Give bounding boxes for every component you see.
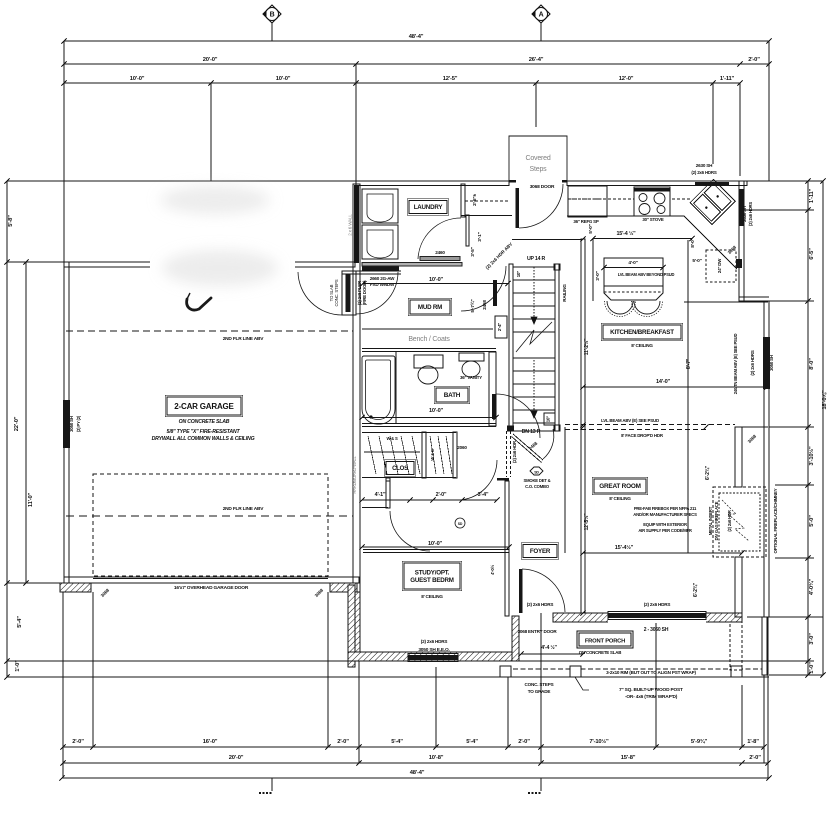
svg-text:3050 SH E.E.O.: 3050 SH E.E.O. <box>418 647 449 653</box>
svg-text:2ND FLR LINE ABV: 2ND FLR LINE ABV <box>223 336 265 342</box>
svg-text:2'-0": 2'-0" <box>72 739 84 745</box>
svg-text:2ND FLR LINE ABV: 2ND FLR LINE ABV <box>223 506 265 512</box>
svg-text:3068 DOOR: 3068 DOOR <box>530 184 555 190</box>
svg-text:(2) 2x6 HDRS: (2) 2x6 HDRS <box>750 350 755 375</box>
svg-text:2'-0": 2'-0" <box>748 57 760 63</box>
svg-text:(2) PY (2): (2) PY (2) <box>76 415 81 432</box>
svg-text:(2) 2x6 HDRS: (2) 2x6 HDRS <box>644 602 671 607</box>
svg-text:5'-7¾": 5'-7¾" <box>469 299 476 312</box>
svg-text:2660 2G-AW: 2660 2G-AW <box>370 276 395 281</box>
svg-text:48'-4": 48'-4" <box>410 770 425 776</box>
svg-text:1'-0": 1'-0" <box>15 660 21 672</box>
svg-text:LVL BEAM ABV BEYOND PSUD: LVL BEAM ABV BEYOND PSUD <box>618 272 675 277</box>
svg-text:15'-4½": 15'-4½" <box>615 544 634 551</box>
svg-text:-OR- 4x6 (TRIM WRAP'D): -OR- 4x6 (TRIM WRAP'D) <box>625 694 678 700</box>
svg-text:4'-0¾": 4'-0¾" <box>808 578 815 595</box>
svg-text:(2) 2x6 HDRS: (2) 2x6 HDRS <box>691 170 716 175</box>
svg-text:FOYER: FOYER <box>530 548 551 555</box>
svg-text:2468: 2468 <box>482 300 487 310</box>
svg-text:OPTIONAL FIREPLACE/CHIMNEY: OPTIONAL FIREPLACE/CHIMNEY <box>773 488 778 553</box>
svg-text:ON CONCRETE SLAB: ON CONCRETE SLAB <box>579 650 621 655</box>
svg-text:5'-4": 5'-4" <box>391 739 403 745</box>
svg-text:14'-0": 14'-0" <box>656 379 671 385</box>
svg-text:5'-0": 5'-0" <box>809 515 815 527</box>
svg-text:4'-1": 4'-1" <box>375 492 386 498</box>
svg-text:2'-0": 2'-0" <box>337 739 349 745</box>
svg-text:METAL INSERT: METAL INSERT <box>708 506 713 535</box>
svg-text:3050 SH: 3050 SH <box>69 416 74 432</box>
svg-text:Steps: Steps <box>530 166 548 173</box>
svg-text:48'-4": 48'-4" <box>409 34 424 40</box>
svg-text:20'-0": 20'-0" <box>229 755 244 761</box>
svg-text:FRONT PORCH: FRONT PORCH <box>585 639 625 645</box>
svg-text:8' FACE DROP'D HDR: 8' FACE DROP'D HDR <box>621 433 664 438</box>
svg-text:A: A <box>539 12 544 19</box>
svg-text:DN 13 R: DN 13 R <box>522 429 541 435</box>
svg-text:UP 14 R: UP 14 R <box>527 256 546 262</box>
svg-text:3'-0": 3'-0" <box>595 271 601 280</box>
svg-text:(2) 2x6 HDRS: (2) 2x6 HDRS <box>748 202 753 226</box>
svg-text:DRYWALL ALL COMMON WALLS & CEI: DRYWALL ALL COMMON WALLS & CEILING <box>152 436 255 442</box>
svg-text:6'-2¾": 6'-2¾" <box>704 465 711 480</box>
svg-text:10'-0": 10'-0" <box>130 76 145 82</box>
svg-text:36" REFG SP: 36" REFG SP <box>573 219 599 224</box>
svg-text:W & S: W & S <box>430 449 435 461</box>
svg-text:3-2x10 RIM (BUT OUT TO ALIGN P: 3-2x10 RIM (BUT OUT TO ALIGN PST WRAP) <box>606 670 696 675</box>
svg-text:TO SLAB: TO SLAB <box>329 284 334 301</box>
svg-text:5'-4": 5'-4" <box>17 616 23 628</box>
svg-text:PRE-FAB FIREBOX PER NFPA 211: PRE-FAB FIREBOX PER NFPA 211 <box>634 506 697 511</box>
svg-text:B: B <box>270 12 275 19</box>
svg-text:Bench / Coats: Bench / Coats <box>408 336 450 343</box>
svg-text:EQUIP WITH EXTERIOR: EQUIP WITH EXTERIOR <box>643 522 687 527</box>
svg-text:2060: 2060 <box>457 445 467 450</box>
svg-text:AIR SUPPLY PER CODE/MFR: AIR SUPPLY PER CODE/MFR <box>638 528 692 533</box>
svg-text:2'-0": 2'-0" <box>749 755 761 761</box>
svg-text:2'-0": 2'-0" <box>436 492 447 498</box>
svg-text:8' CEILING: 8' CEILING <box>609 496 631 501</box>
svg-text:GUEST BEDRM: GUEST BEDRM <box>410 577 454 584</box>
svg-text:2 x 6 WALL: 2 x 6 WALL <box>348 214 353 236</box>
svg-text:16'x7' OVERHEAD GARAGE DOOR: 16'x7' OVERHEAD GARAGE DOOR <box>174 585 249 591</box>
svg-text:22'-0": 22'-0" <box>14 416 20 431</box>
svg-text:1'-0": 1'-0" <box>809 662 815 674</box>
svg-text:5'-8": 5'-8" <box>8 215 14 227</box>
svg-text:BATH: BATH <box>444 392 461 399</box>
svg-text:8' CEILING: 8' CEILING <box>421 594 443 599</box>
svg-text:8' CEILING: 8' CEILING <box>631 343 653 348</box>
svg-text:SMOKE DET &: SMOKE DET & <box>524 478 551 483</box>
svg-text:TO GRADE: TO GRADE <box>528 689 551 694</box>
svg-text:10": 10" <box>546 416 551 422</box>
svg-text:12'-5": 12'-5" <box>443 76 458 82</box>
svg-text:3'-1": 3'-1" <box>477 232 483 241</box>
svg-text:C.O. COMBO: C.O. COMBO <box>525 484 550 489</box>
svg-text:12'-0": 12'-0" <box>619 76 634 82</box>
svg-text:4'-0½: 4'-0½ <box>490 564 495 575</box>
svg-text:3'-10½": 3'-10½" <box>808 446 815 466</box>
svg-text:6'-2¾": 6'-2¾" <box>692 582 699 597</box>
svg-text:DIV GAS FIREPLACE: DIV GAS FIREPLACE <box>714 501 719 540</box>
svg-text:240/TN BEAM ABV (E) SEE PSUD: 240/TN BEAM ABV (E) SEE PSUD <box>733 334 738 395</box>
svg-text:3'-0": 3'-0" <box>809 633 815 645</box>
svg-text:36" VANITY: 36" VANITY <box>460 375 482 380</box>
svg-text:(2) 2x6 HDR: (2) 2x6 HDR <box>512 440 517 463</box>
svg-text:2630 SH: 2630 SH <box>742 206 747 222</box>
svg-text:5/8" TYPE "X" FIRE-RESISTANT: 5/8" TYPE "X" FIRE-RESISTANT <box>167 429 241 435</box>
svg-text:LVL BEAM ABV (E) SEE PSUD: LVL BEAM ABV (E) SEE PSUD <box>601 418 659 423</box>
svg-text:8'-0": 8'-0" <box>690 238 696 247</box>
svg-text:30" STOVE: 30" STOVE <box>642 217 663 222</box>
svg-text:5'-0": 5'-0" <box>692 258 701 264</box>
svg-text:2-CAR GARAGE: 2-CAR GARAGE <box>174 402 234 411</box>
svg-text:(2) 2x6 HDRS: (2) 2x6 HDRS <box>527 602 554 607</box>
svg-text:2630 SH: 2630 SH <box>696 163 713 168</box>
svg-text:10'-0": 10'-0" <box>429 277 444 283</box>
svg-text:5'-0": 5'-0" <box>588 224 594 233</box>
svg-text:(2) 2x6 HDR: (2) 2x6 HDR <box>727 510 732 531</box>
svg-text:24" DW: 24" DW <box>717 258 722 273</box>
svg-text:10'-0": 10'-0" <box>428 541 443 547</box>
svg-text:10'-8": 10'-8" <box>429 755 444 761</box>
svg-text:8'-7": 8'-7" <box>686 358 692 369</box>
svg-text:3068 ENTRY DOOR: 3068 ENTRY DOOR <box>518 629 558 634</box>
svg-text:HARDIBOARD WALL: HARDIBOARD WALL <box>352 455 357 493</box>
svg-text:26'-4": 26'-4" <box>529 57 544 63</box>
svg-text:SD: SD <box>534 471 539 475</box>
svg-text:CLOS: CLOS <box>392 466 408 472</box>
svg-text:CONC. STEPS: CONC. STEPS <box>525 682 554 687</box>
svg-text:10'-0": 10'-0" <box>429 408 444 414</box>
svg-text:8'-0": 8'-0" <box>809 358 815 370</box>
svg-text:3'-5": 3'-5" <box>470 247 476 256</box>
svg-text:(FIRE DOOR): (FIRE DOOR) <box>362 280 367 305</box>
svg-text:AND/OR MANUFACTURER SPECS: AND/OR MANUFACTURER SPECS <box>633 512 697 517</box>
svg-text:Covered: Covered <box>525 155 550 162</box>
svg-text:15'-4 ½": 15'-4 ½" <box>616 230 636 237</box>
svg-text:STUDY/OPT.: STUDY/OPT. <box>415 569 450 576</box>
svg-text:W & S: W & S <box>386 436 398 441</box>
svg-text:3050 SH: 3050 SH <box>769 355 774 371</box>
svg-text:2460: 2460 <box>435 250 445 255</box>
svg-text:11'-2½": 11'-2½" <box>583 338 590 355</box>
svg-text:5'-9¾": 5'-9¾" <box>691 738 708 745</box>
svg-text:7'-10½": 7'-10½" <box>589 738 609 745</box>
svg-text:1'-11": 1'-11" <box>809 188 815 203</box>
svg-text:2'-6"±: 2'-6"± <box>472 194 478 206</box>
svg-text:4'-4 ½": 4'-4 ½" <box>541 644 557 651</box>
svg-text:5'-4": 5'-4" <box>466 739 478 745</box>
svg-text:11'-0": 11'-0" <box>28 492 34 507</box>
svg-text:10'-0": 10'-0" <box>276 76 291 82</box>
svg-text:2 - 3050 SH: 2 - 3050 SH <box>644 627 669 633</box>
svg-text:KITCHEN/BREAKFAST: KITCHEN/BREAKFAST <box>610 329 674 336</box>
svg-text:7" SQ. BUILT-UP WOOD POST: 7" SQ. BUILT-UP WOOD POST <box>619 687 683 693</box>
svg-text:18'-0⅝": 18'-0⅝" <box>822 390 828 410</box>
svg-text:MUD RM: MUD RM <box>418 304 442 311</box>
svg-text:2'-0": 2'-0" <box>518 739 530 745</box>
svg-text:LAUNDRY: LAUNDRY <box>414 204 444 211</box>
svg-text:RAILING: RAILING <box>562 284 567 302</box>
svg-text:(2) 2x6 HDRS: (2) 2x6 HDRS <box>421 639 448 644</box>
svg-text:12'-5½": 12'-5½" <box>583 513 590 531</box>
svg-text:20'-0": 20'-0" <box>203 57 218 63</box>
svg-text:CONC. STEPS: CONC. STEPS <box>334 279 339 306</box>
svg-text:1'-11": 1'-11" <box>720 76 735 82</box>
svg-text:GREAT ROOM: GREAT ROOM <box>599 483 641 490</box>
svg-text:1'-8": 1'-8" <box>747 739 759 745</box>
svg-text:SD: SD <box>458 522 463 526</box>
svg-text:6'-5": 6'-5" <box>809 248 815 260</box>
svg-text:16'-0": 16'-0" <box>203 739 218 745</box>
svg-text:FXD WNDW: FXD WNDW <box>370 282 395 287</box>
svg-text:2'-4": 2'-4" <box>497 323 502 331</box>
svg-text:10": 10" <box>516 271 521 277</box>
svg-text:ON CONCRETE SLAB: ON CONCRETE SLAB <box>179 419 230 425</box>
svg-text:4'-0": 4'-0" <box>628 260 637 266</box>
svg-text:15'-8": 15'-8" <box>621 755 636 761</box>
